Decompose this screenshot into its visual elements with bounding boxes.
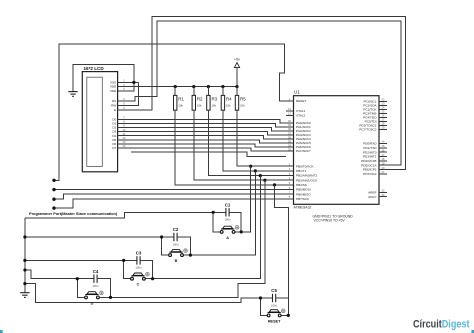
pushbutton A — [220, 226, 239, 234]
U1 pin 32 AREF — [368, 189, 387, 195]
node C2 rail junction — [160, 235, 163, 238]
LCD module 16*2 LCD — [82, 66, 117, 172]
svg-text:C3: C3 — [136, 251, 142, 256]
U1 pin 4 PB3/AIN1/OC0 — [286, 177, 317, 183]
node PB1 net junction — [254, 169, 257, 172]
U1 pin 16 PD2/INT0 — [363, 148, 387, 154]
svg-text:RESET: RESET — [268, 319, 281, 323]
LCD pin 9 D2 — [112, 124, 131, 130]
wire RESET net: port dot up left side, across top, down to RESET pin — [54, 44, 286, 180]
U1 pin 28 PC6/TOSC1 — [359, 122, 387, 128]
node rail junction at x=193.8 — [192, 85, 195, 88]
U1 pin 36 PA4/ADC4 — [286, 135, 311, 141]
LCD pin 2 VDD — [110, 83, 131, 89]
power +5v arrow symbol — [234, 63, 239, 68]
svg-text:100n: 100n — [225, 218, 231, 222]
U1 pin 40 PA0/ADC0 — [286, 119, 311, 125]
wire C2 ground rail — [25, 236, 174, 238]
node C4 rail junction — [76, 277, 79, 280]
resistor R4 10k pull-up — [221, 87, 232, 111]
node rail junction at x=222.9 — [221, 85, 224, 88]
pushbutton D — [85, 291, 104, 299]
svg-text:XTAL1: XTAL1 — [296, 109, 306, 113]
U1 pin 29 PC7/TOSC2 — [359, 126, 387, 132]
node C1 rail junction — [212, 211, 215, 214]
svg-text:PD5/OC1A: PD5/OC1A — [361, 163, 377, 167]
node trunk junction y=270 — [23, 268, 26, 271]
wire R4 bottom to PB1 row — [223, 110, 286, 171]
node programmer port terminal y=208.1 — [52, 206, 55, 209]
LCD pin 11 D4 — [112, 132, 131, 138]
wire bus line to PB gap — [131, 152, 286, 156]
U1 pin 8 PB7/SCK — [286, 195, 310, 201]
node programmer port terminal y=189.6 — [52, 188, 55, 191]
decorative corner marks — [0, 330, 3, 333]
U1 pin 3 PB2/AIN0/INT2 — [286, 172, 318, 178]
wire button A drop from PB0 net — [241, 166, 251, 232]
U1 pin 9 RESET — [286, 97, 307, 103]
node C3 rail junction — [122, 259, 125, 262]
LCD pin 7 D0 — [112, 116, 131, 122]
U1 pin 30 AVCC — [368, 193, 387, 199]
wire LCD data line 7 to PA7 — [131, 148, 286, 151]
svg-text:PD1/TXD: PD1/TXD — [363, 146, 377, 150]
svg-text:R1: R1 — [178, 97, 184, 102]
svg-text:PC7/TOSC2: PC7/TOSC2 — [359, 128, 376, 132]
node VSS junction dot — [132, 81, 135, 84]
node PB3 net junction — [263, 179, 266, 182]
svg-text:PD2/INT0: PD2/INT0 — [363, 150, 377, 154]
wire C1 right side — [229, 212, 241, 232]
U1 pin 37 PA3/ADC3 — [286, 131, 311, 137]
wire MOSI port wire to PB5 — [54, 189, 286, 191]
svg-text:PB0/T0/XCK: PB0/T0/XCK — [296, 164, 314, 168]
wire C2 left drop to button — [162, 237, 169, 255]
LCD pin 6 E — [114, 106, 131, 112]
wire LCD data line 5 to PA5 — [131, 140, 286, 143]
LCD pin 8 D1 — [112, 120, 131, 126]
svg-text:C2: C2 — [173, 227, 179, 232]
node C2 button-right junction — [189, 254, 192, 257]
wire button D drop from PB3 net (routed around C5) — [111, 180, 265, 297]
svg-text:10k: 10k — [226, 104, 231, 108]
wire C3 left drop to button — [124, 260, 131, 278]
U1 pin 27 PC5/TDI — [365, 118, 388, 124]
capacitor C3 100n — [137, 256, 140, 264]
svg-text:R3: R3 — [212, 97, 218, 102]
U1 pin 35 PA5/ADC5 — [286, 139, 311, 145]
wire LCD data line 6 to PA6 — [131, 144, 286, 147]
capacitor C2 100n — [174, 233, 177, 241]
svg-text:CírcuitDigest: CírcuitDigest — [413, 319, 470, 331]
U1 pin 1 PB0/T0/XCK — [286, 163, 315, 169]
wire C4 right side — [97, 279, 110, 298]
svg-text:R2: R2 — [197, 97, 203, 102]
node trunk junction y=283.6 — [23, 282, 26, 285]
capacitor C5 100n — [273, 294, 276, 302]
node rail junction at x=175.2 — [174, 85, 177, 88]
U1 pin 34 PA6/ADC6 — [286, 143, 311, 149]
svg-text:PB5/MOSI: PB5/MOSI — [296, 188, 311, 192]
U1 pin 19 PD5/OC1A — [361, 162, 387, 168]
svg-text:10k: 10k — [197, 104, 202, 108]
U1 pin 6 PB5/MOSI — [286, 186, 311, 192]
capacitor C4 100n — [94, 275, 97, 283]
node C1 button-right junction — [240, 230, 243, 233]
svg-text:B: B — [175, 259, 178, 263]
wire R2 bottom to PB3 row — [194, 110, 286, 180]
svg-text:PB3/AIN1/OC0: PB3/AIN1/OC0 — [296, 178, 317, 182]
wire bottom ground return to C5 — [25, 284, 273, 303]
ground (LCD) — [68, 92, 77, 97]
ground (bottom trunk) — [20, 293, 29, 298]
capacitor C1 100n — [226, 208, 229, 216]
U1 pin 12 XTAL2 — [286, 112, 306, 118]
U1 pin 25 PC3/TMS — [363, 110, 387, 116]
svg-text:C: C — [137, 283, 140, 287]
U1 pin 18 PD4/OC1B — [361, 157, 387, 163]
wire MISO port wire to PB6 — [54, 194, 286, 199]
svg-text:R5: R5 — [240, 97, 246, 102]
svg-text:U1: U1 — [294, 90, 300, 95]
wire RS net: LCD pin4 jog up and over top to PD5 — [118, 21, 402, 165]
pushbutton RESET — [267, 309, 285, 317]
U1 pin 20 PD6/ICP1 — [363, 166, 387, 172]
node PB0 net junction — [249, 165, 252, 168]
wire LCD data line 2 to PA2 — [131, 128, 286, 131]
U1 pin 22 PC0/SCL — [364, 98, 388, 104]
LCD pin 4 RS — [112, 97, 131, 103]
wire LCD data line 4 to PA4 — [131, 136, 286, 139]
U1 pin 5 PB4/SS — [286, 181, 307, 187]
wire C1 ground rail — [25, 212, 226, 218]
U1 pin 23 PC1/SDA — [363, 102, 387, 108]
U1 pin 2 PB1/T1 — [286, 167, 307, 173]
svg-text:100n: 100n — [93, 284, 99, 288]
LCD pin 12 D5 — [112, 136, 131, 142]
node C5 rail junction — [259, 296, 262, 299]
wire C3 right side — [140, 260, 153, 278]
node C4 button-right junction — [109, 296, 112, 299]
LCD pin 13 D6 — [112, 140, 131, 146]
svg-text:PB4/SS: PB4/SS — [296, 183, 307, 187]
U1 pin 17 PD3/INT1 — [363, 153, 387, 159]
svg-text:16*2 LCD: 16*2 LCD — [84, 66, 105, 71]
resistor R3 10k pull-up — [207, 87, 218, 111]
U1 pin 15 PD1/TXD — [363, 144, 387, 150]
wire C5 left drop to button — [261, 298, 268, 315]
svg-text:C1: C1 — [225, 203, 231, 208]
wire LCD data line 0 to PA0 — [131, 119, 286, 123]
svg-text:PB7/SCK: PB7/SCK — [296, 197, 310, 201]
wire C4 left drop to button — [77, 279, 84, 298]
svg-text:10k: 10k — [178, 104, 183, 108]
wire C5 right side — [276, 298, 289, 315]
node programmer port terminal y=199.2 — [52, 198, 55, 201]
wire +5V rail from LCD VDD across resistor tops — [118, 68, 237, 87]
LCD pin 14 D7 — [112, 144, 131, 150]
U1 pin 39 PA1/ADC1 — [286, 123, 311, 129]
wire SCK port wire to PB7 — [54, 199, 286, 208]
wire R3 bottom to PB2 row — [208, 110, 285, 175]
svg-text:C4: C4 — [93, 269, 99, 274]
svg-text:PB2/AIN0/INT2: PB2/AIN0/INT2 — [296, 174, 317, 178]
U1 pin 7 PB6/MISO — [286, 191, 311, 197]
svg-text:VCC=PIN10 TO +5V: VCC=PIN10 TO +5V — [314, 219, 346, 223]
pushbutton B — [169, 249, 188, 257]
node PB2 net junction — [259, 174, 262, 177]
wire LCD data line 1 to PA1 — [131, 123, 286, 127]
node trunk junction y=237 — [23, 235, 26, 238]
wire R5 bottom to PB0 row — [237, 110, 286, 166]
svg-text:PB6/MISO: PB6/MISO — [296, 192, 311, 196]
wire button B drop from PB1 net — [190, 171, 255, 255]
svg-text:10k: 10k — [212, 104, 217, 108]
wire R1 bottom to PB4 row — [175, 110, 286, 185]
svg-text:Programmer Port(Master Slave c: Programmer Port(Master Slave communicati… — [29, 211, 118, 216]
svg-text:AVCC: AVCC — [368, 195, 377, 199]
LCD pin 10 D3 — [112, 128, 131, 134]
node trunk junction y=260.4 — [23, 259, 26, 262]
LCD pin 5 RW — [111, 102, 131, 108]
pushbutton C — [131, 272, 150, 280]
wire C1 left drop to button — [213, 212, 220, 232]
U1 pin 38 PA2/ADC2 — [286, 127, 311, 133]
wire LCD data line 3 to PA3 — [131, 132, 286, 135]
wire ground trunk left side — [24, 218, 26, 293]
wire C4 ground rail jog — [25, 270, 94, 279]
wire E net: LCD pin6 up and over top to PD6 — [118, 16, 406, 169]
svg-text:PB1/T1: PB1/T1 — [296, 169, 307, 173]
wire button C drop from PB2 net — [153, 176, 261, 279]
svg-text:VEE: VEE — [110, 89, 116, 93]
node C3 button-right junction — [151, 277, 154, 280]
svg-text:RESET: RESET — [296, 99, 306, 103]
node programmer port terminal y=180.3 — [52, 179, 55, 182]
svg-text:C5: C5 — [271, 288, 277, 293]
svg-text:D7: D7 — [112, 146, 116, 150]
LCD pin 3 VEE — [110, 87, 131, 93]
svg-text:10k: 10k — [240, 104, 245, 108]
svg-text:100n: 100n — [136, 266, 142, 270]
svg-text:100n: 100n — [271, 303, 277, 307]
microcontroller U1 ATMEGA32 body — [294, 90, 380, 210]
svg-text:XTAL2: XTAL2 — [296, 114, 306, 118]
wire C3 ground rail — [25, 259, 137, 261]
node C5 button-right junction — [287, 314, 290, 317]
svg-text:PA7/ADC7: PA7/ADC7 — [296, 149, 311, 153]
LCD pin 1 VSS — [110, 79, 131, 85]
U1 pin 21 PD7/OC2 — [363, 170, 387, 176]
svg-text:PD7/OC2: PD7/OC2 — [363, 172, 377, 176]
svg-text:+5v: +5v — [234, 58, 240, 62]
svg-text:E: E — [114, 108, 116, 112]
node rail junction at x=208.4 — [207, 85, 210, 88]
node rail junction at x=237.0 — [235, 85, 238, 88]
resistor R5 10k pull-up — [235, 87, 246, 111]
resistor R2 10k pull-up — [192, 87, 203, 111]
wire C2 right side — [177, 237, 190, 255]
wire LCD ground net: VSS/VEE/RW to ground — [73, 65, 139, 106]
node PB4 net junction — [273, 183, 276, 186]
svg-text:R4: R4 — [226, 97, 232, 102]
U1 pin 24 PC2/TCK — [363, 106, 387, 112]
svg-text:RW: RW — [111, 103, 116, 107]
svg-text:100n: 100n — [173, 242, 179, 246]
svg-text:A: A — [226, 236, 229, 240]
U1 pin 14 PD0/RXD — [363, 140, 387, 146]
wire RESET button drop from PB4 net — [275, 185, 289, 316]
U1 pin 13 XTAL1 — [286, 107, 306, 113]
U1 pin 26 PC4/TDO — [363, 114, 387, 120]
resistor R1 10k pull-up — [174, 87, 185, 111]
U1 pin 33 PA7/ADC7 — [286, 147, 311, 153]
svg-text:ATMEGA32: ATMEGA32 — [294, 205, 312, 209]
svg-text:D: D — [91, 301, 94, 305]
